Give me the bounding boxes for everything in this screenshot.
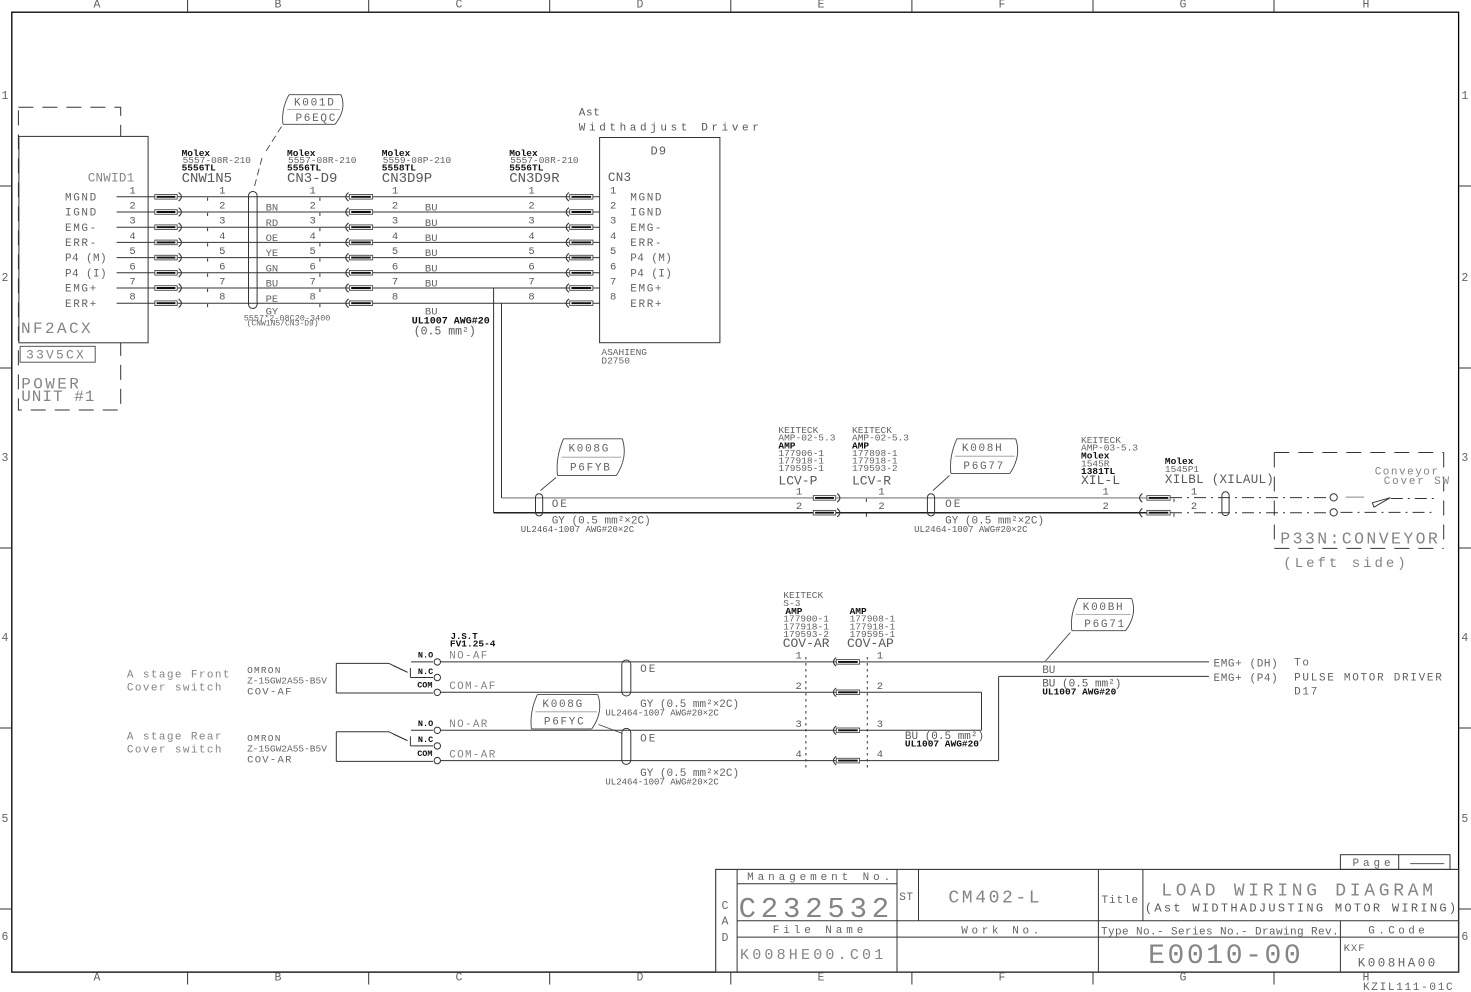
svg-text:7: 7 xyxy=(129,277,135,289)
leader from K00BH marker to EMG wire xyxy=(1046,633,1071,662)
svg-text:D: D xyxy=(637,0,644,11)
svg-text:IGND: IGND xyxy=(630,208,663,220)
svg-text:Cover switch: Cover switch xyxy=(127,683,223,695)
wire COM-AF xyxy=(441,691,982,693)
wire EMG+(P4) to pulse motor driver xyxy=(999,675,1209,677)
svg-text:1: 1 xyxy=(528,185,534,197)
wire marker K00BH / P6G71 xyxy=(1078,597,1132,599)
svg-text:C: C xyxy=(722,900,729,913)
svg-text:F: F xyxy=(999,972,1006,985)
svg-text:1: 1 xyxy=(878,486,884,498)
svg-text:2: 2 xyxy=(878,501,884,513)
wire marker K001D / P6EQC xyxy=(289,94,341,96)
svg-text:K008HE00.C01: K008HE00.C01 xyxy=(740,947,886,964)
svg-text:BU: BU xyxy=(425,248,438,260)
svg-text:LCV-R: LCV-R xyxy=(852,474,891,489)
svg-text:OMRON: OMRON xyxy=(247,733,282,744)
svg-text:Title: Title xyxy=(1102,895,1140,907)
svg-text:KZIL111-01C: KZIL111-01C xyxy=(1363,982,1454,992)
svg-text:6: 6 xyxy=(310,261,316,273)
svg-text:5: 5 xyxy=(392,246,398,258)
svg-text:4: 4 xyxy=(129,231,135,243)
svg-text:K00BH: K00BH xyxy=(1083,602,1125,614)
svg-text:File Name: File Name xyxy=(773,925,868,937)
svg-text:A: A xyxy=(94,972,101,985)
svg-text:CN3: CN3 xyxy=(608,171,631,185)
junction ticks after XILBL xyxy=(1173,499,1175,502)
svg-text:6: 6 xyxy=(610,261,616,273)
svg-text:3: 3 xyxy=(219,216,225,228)
svg-text:1: 1 xyxy=(796,486,802,498)
cable capsule marker right pair xyxy=(927,494,934,516)
svg-text:C: C xyxy=(456,972,463,985)
title block frame xyxy=(716,869,1459,972)
svg-text:6: 6 xyxy=(528,261,534,273)
svg-text:7: 7 xyxy=(392,277,398,289)
svg-text:8: 8 xyxy=(610,292,616,304)
svg-text:A stage Rear: A stage Rear xyxy=(127,732,223,744)
cover switch contact lower (circle) xyxy=(1330,509,1337,516)
svg-text:3: 3 xyxy=(310,216,316,228)
svg-text:5: 5 xyxy=(129,246,135,258)
svg-text:BN: BN xyxy=(266,203,279,215)
svg-text:COV-AP: COV-AP xyxy=(847,636,894,651)
svg-text:CN3-D9: CN3-D9 xyxy=(287,171,337,187)
svg-text:K001D: K001D xyxy=(294,98,336,110)
svg-text:1: 1 xyxy=(2,90,9,103)
svg-text:D: D xyxy=(722,932,729,945)
wire ERR+ drop from row8 to upper conveyor wire xyxy=(501,303,503,498)
svg-text:4: 4 xyxy=(310,231,316,243)
connector CNW1N5 crimp terminals xyxy=(155,195,177,200)
svg-text:CN3D9R: CN3D9R xyxy=(509,171,560,187)
svg-text:1: 1 xyxy=(1461,90,1468,103)
svg-text:6: 6 xyxy=(1461,931,1468,944)
svg-text:P6FYB: P6FYB xyxy=(570,463,612,475)
driver unit D9 box (Ast Widthadjust Driver) xyxy=(600,138,720,343)
svg-text:OE: OE xyxy=(640,734,657,746)
cable capsule marker left pair xyxy=(536,494,543,516)
dash-dot wires inside conveyor box xyxy=(1391,498,1434,500)
svg-text:COM-AR: COM-AR xyxy=(449,750,496,762)
svg-text:3: 3 xyxy=(795,719,801,731)
svg-text:EMG-: EMG- xyxy=(65,223,98,235)
conveyor pair wire upper (OE) xyxy=(502,497,1167,499)
svg-text:ERR+: ERR+ xyxy=(630,299,663,311)
svg-text:1: 1 xyxy=(1191,486,1197,498)
svg-text:LOAD WIRING DIAGRAM: LOAD WIRING DIAGRAM xyxy=(1161,882,1437,902)
svg-text:8: 8 xyxy=(528,292,534,304)
svg-text:2: 2 xyxy=(796,501,802,513)
svg-text:Widthadjust Driver: Widthadjust Driver xyxy=(579,122,763,134)
svg-text:1: 1 xyxy=(310,185,316,197)
svg-text:OE: OE xyxy=(266,233,279,245)
svg-text:3: 3 xyxy=(877,719,883,731)
svg-text:P4 (I): P4 (I) xyxy=(65,268,107,280)
svg-text:2: 2 xyxy=(877,681,883,693)
svg-text:GN: GN xyxy=(266,263,279,275)
svg-text:3: 3 xyxy=(2,452,9,465)
svg-text:Management No.: Management No. xyxy=(747,872,894,884)
svg-text:CNW1N5: CNW1N5 xyxy=(182,171,232,187)
svg-text:E0010-00: E0010-00 xyxy=(1148,941,1303,972)
svg-text:6: 6 xyxy=(129,261,135,273)
svg-text:UL1007 AWG#20: UL1007 AWG#20 xyxy=(1042,687,1116,698)
connector COV-AR/COV-AP crimp terminals xyxy=(833,658,836,667)
svg-text:K008G: K008G xyxy=(542,699,584,711)
svg-text:B: B xyxy=(275,972,282,985)
dash-dot wire upper to cover switch xyxy=(1170,497,1330,499)
svg-text:P4 (M): P4 (M) xyxy=(630,253,672,265)
leader from K008G to capsule xyxy=(541,478,557,491)
svg-text:YE: YE xyxy=(266,248,279,260)
svg-text:MGND: MGND xyxy=(65,192,98,204)
svg-text:3: 3 xyxy=(1461,452,1468,465)
svg-text:4: 4 xyxy=(877,749,883,761)
wire COM-AR riser to EMG+(P4) xyxy=(998,676,1000,760)
svg-text:8: 8 xyxy=(310,292,316,304)
leader line from K001D marker to cable xyxy=(266,127,282,153)
svg-text:ST: ST xyxy=(899,892,913,904)
svg-text:NO-AR: NO-AR xyxy=(449,719,489,731)
svg-text:2: 2 xyxy=(2,272,9,285)
title block page cell xyxy=(1340,855,1450,870)
connector CN3D9P crimp terminals xyxy=(346,193,349,202)
svg-text:H: H xyxy=(1363,0,1370,11)
svg-text:K008G: K008G xyxy=(569,444,611,456)
svg-text:(0.5 mm²): (0.5 mm²) xyxy=(414,326,476,339)
wire EMG+ drop from row7 to lower conveyor wire xyxy=(493,288,495,513)
svg-text:2: 2 xyxy=(310,201,316,213)
svg-text:6: 6 xyxy=(219,261,225,273)
svg-text:ERR+: ERR+ xyxy=(65,299,98,311)
svg-text:BU: BU xyxy=(266,279,279,291)
svg-text:1: 1 xyxy=(219,185,225,197)
svg-text:A stage Front: A stage Front xyxy=(127,670,231,682)
svg-text:COV-AR: COV-AR xyxy=(247,755,293,767)
svg-text:D9: D9 xyxy=(651,145,668,159)
svg-text:4: 4 xyxy=(610,231,616,243)
svg-text:COV-AF: COV-AF xyxy=(247,687,293,699)
svg-text:OE: OE xyxy=(552,499,569,511)
svg-text:1: 1 xyxy=(610,185,616,197)
svg-text:N.O: N.O xyxy=(418,650,433,660)
svg-text:UL2464-1007 AWG#20×2C: UL2464-1007 AWG#20×2C xyxy=(605,778,719,788)
svg-text:A: A xyxy=(722,916,729,929)
svg-text:5: 5 xyxy=(2,813,9,826)
svg-text:E: E xyxy=(818,972,825,985)
svg-text:COM-AF: COM-AF xyxy=(449,681,496,693)
svg-text:To: To xyxy=(1294,658,1311,670)
svg-text:XIL-L: XIL-L xyxy=(1081,473,1120,488)
svg-text:UL2464-1007 AWG#20×2C: UL2464-1007 AWG#20×2C xyxy=(521,525,635,535)
svg-text:4: 4 xyxy=(1461,632,1468,645)
svg-text:2: 2 xyxy=(610,201,616,213)
leader from K008G marker to rear capsule xyxy=(599,725,623,734)
svg-text:5: 5 xyxy=(219,246,225,258)
svg-text:D: D xyxy=(637,972,644,985)
svg-text:2: 2 xyxy=(795,681,801,693)
wire marker K008G / P6FYC xyxy=(537,694,597,696)
svg-text:PE: PE xyxy=(266,294,279,306)
cover switch COV-AF (A stage Front) xyxy=(335,663,337,693)
svg-text:Z-15GW2A55-B5V: Z-15GW2A55-B5V xyxy=(247,743,327,754)
dash-dot wire lower to cover switch xyxy=(1170,512,1330,514)
svg-text:3: 3 xyxy=(528,216,534,228)
svg-text:P6FYC: P6FYC xyxy=(544,717,586,729)
connector XIL-L crimp terminals xyxy=(1140,494,1143,503)
svg-text:E: E xyxy=(818,0,825,11)
svg-text:UL2464-1007 AWG#20×2C: UL2464-1007 AWG#20×2C xyxy=(605,708,719,718)
svg-text:Type No.- Series No.- Drawing: Type No.- Series No.- Drawing Rev. xyxy=(1101,927,1339,939)
svg-text:F: F xyxy=(999,0,1006,11)
svg-text:7: 7 xyxy=(219,277,225,289)
svg-text:BU: BU xyxy=(1042,665,1055,677)
svg-text:G: G xyxy=(1180,0,1187,11)
svg-text:Z-15GW2A55-B5V: Z-15GW2A55-B5V xyxy=(247,675,327,686)
svg-text:4: 4 xyxy=(528,231,534,243)
wire link COM-AF to NO-AR xyxy=(981,692,983,730)
power unit #1 dashed enclosure xyxy=(18,107,120,410)
svg-text:D17: D17 xyxy=(1294,686,1319,698)
svg-text:Cover switch: Cover switch xyxy=(127,744,223,756)
svg-text:2: 2 xyxy=(1102,501,1108,513)
svg-text:2: 2 xyxy=(219,201,225,213)
svg-text:UL2464-1007 AWG#20×2C: UL2464-1007 AWG#20×2C xyxy=(914,525,1028,535)
svg-text:5: 5 xyxy=(528,246,534,258)
svg-text:EMG+ (DH): EMG+ (DH) xyxy=(1214,659,1279,671)
junction ticks after CNW1N5 terminals xyxy=(207,198,209,201)
svg-text:C232532: C232532 xyxy=(739,893,894,926)
svg-text:P6EQC: P6EQC xyxy=(296,113,338,125)
svg-text:5: 5 xyxy=(1461,813,1468,826)
cable capsule marker XILBL xyxy=(1222,492,1229,516)
svg-text:Ast: Ast xyxy=(579,108,601,120)
label 33V5CX box xyxy=(20,346,95,362)
wire marker K008H / P6G77 xyxy=(957,438,1016,440)
svg-text:RD: RD xyxy=(266,218,279,230)
connector LCV-P/LCV-R crimp terminals xyxy=(813,496,835,501)
svg-text:Work No.: Work No. xyxy=(961,926,1043,938)
svg-text:(CNW1N5/CN3-D9): (CNW1N5/CN3-D9) xyxy=(247,320,319,329)
svg-text:1: 1 xyxy=(1102,486,1108,498)
svg-text:OE: OE xyxy=(945,499,962,511)
svg-text:P4 (M): P4 (M) xyxy=(65,253,107,265)
svg-text:4: 4 xyxy=(2,632,9,645)
svg-text:A: A xyxy=(94,0,101,11)
svg-text:2: 2 xyxy=(392,201,398,213)
svg-text:EMG+: EMG+ xyxy=(65,284,98,296)
svg-text:7: 7 xyxy=(610,277,616,289)
svg-text:CM402-L: CM402-L xyxy=(948,888,1042,908)
svg-text:BU: BU xyxy=(425,263,438,275)
svg-text:P4 (I): P4 (I) xyxy=(630,268,672,280)
wire NO-AF xyxy=(441,661,1210,663)
svg-text:B: B xyxy=(275,0,282,11)
svg-text:CN3D9P: CN3D9P xyxy=(382,171,432,187)
cable capsule front pair xyxy=(622,660,631,696)
svg-text:6: 6 xyxy=(392,261,398,273)
svg-text:8: 8 xyxy=(219,292,225,304)
svg-text:1: 1 xyxy=(877,650,883,662)
junction ticks before LCV-R xyxy=(865,499,867,502)
svg-text:6: 6 xyxy=(2,931,9,944)
connector COV-AR/COV-AP housing dashed lines xyxy=(805,657,807,769)
svg-text:K008HA00: K008HA00 xyxy=(1358,957,1438,971)
svg-text:8: 8 xyxy=(392,292,398,304)
svg-text:MGND: MGND xyxy=(630,192,663,204)
svg-text:Page: Page xyxy=(1353,858,1395,870)
svg-text:G.Code: G.Code xyxy=(1368,926,1428,938)
wires rows 1-8 CNWID1 to CN3 (MGND,IGND,EMG-,ERR-,P4(M),P4(I),EMG+,ERR+) xyxy=(117,196,600,198)
svg-text:4: 4 xyxy=(795,749,801,761)
svg-text:179593-2: 179593-2 xyxy=(852,463,898,474)
svg-text:ERR-: ERR- xyxy=(65,238,98,250)
svg-text:D2750: D2750 xyxy=(601,356,630,367)
svg-text:7: 7 xyxy=(310,277,316,289)
svg-text:2: 2 xyxy=(1461,272,1468,285)
svg-text:8: 8 xyxy=(129,292,135,304)
connector CN3 crimp terminals xyxy=(566,193,569,202)
svg-text:1: 1 xyxy=(392,185,398,197)
svg-text:K008H: K008H xyxy=(962,443,1004,455)
svg-text:BU: BU xyxy=(425,279,438,291)
svg-text:CNWID1: CNWID1 xyxy=(88,171,135,185)
svg-text:OMRON: OMRON xyxy=(247,665,282,676)
svg-text:EMG-: EMG- xyxy=(630,223,663,235)
svg-text:3: 3 xyxy=(610,216,616,228)
svg-text:KXF: KXF xyxy=(1344,943,1366,955)
wire NO-AR xyxy=(441,729,982,731)
svg-text:XILBL (XILAUL): XILBL (XILAUL) xyxy=(1165,473,1274,487)
svg-text:COV-AR: COV-AR xyxy=(783,636,830,651)
svg-text:PULSE MOTOR DRIVER: PULSE MOTOR DRIVER xyxy=(1294,673,1443,685)
svg-text:2: 2 xyxy=(1191,501,1197,513)
svg-text:2: 2 xyxy=(528,201,534,213)
svg-text:FV1.25-4: FV1.25-4 xyxy=(450,639,496,650)
svg-text:Cover SW: Cover SW xyxy=(1384,476,1451,488)
svg-text:7: 7 xyxy=(528,277,534,289)
svg-text:P33N:CONVEYOR: P33N:CONVEYOR xyxy=(1280,529,1440,548)
svg-text:5: 5 xyxy=(310,246,316,258)
svg-text:BU: BU xyxy=(425,233,438,245)
svg-text:IGND: IGND xyxy=(65,208,98,220)
svg-text:UNIT #1: UNIT #1 xyxy=(21,388,95,406)
svg-text:N.O: N.O xyxy=(418,719,433,729)
svg-text:NF2ACX: NF2ACX xyxy=(21,320,93,338)
dashed enclosure P33N CONVEYOR xyxy=(1274,452,1443,454)
svg-text:N.C: N.C xyxy=(418,667,433,677)
cover switch contact upper (circle + blade) xyxy=(1330,494,1337,501)
svg-text:1: 1 xyxy=(795,650,801,662)
svg-text:EMG+: EMG+ xyxy=(630,284,663,296)
svg-text:G: G xyxy=(1180,972,1187,985)
svg-text:33V5CX: 33V5CX xyxy=(26,348,86,363)
svg-text:BU: BU xyxy=(425,218,438,230)
cable capsule rear pair xyxy=(622,728,631,764)
conveyor pair wire lower (GY) xyxy=(494,512,1167,514)
svg-text:(Ast WIDTHADJUSTING MOTOR WIRI: (Ast WIDTHADJUSTING MOTOR WIRING) xyxy=(1145,902,1459,916)
svg-text:OE: OE xyxy=(640,664,657,676)
leader from K008H to capsule xyxy=(933,476,950,491)
svg-text:179595-1: 179595-1 xyxy=(778,463,824,474)
cable bundle capsule CNW1N5/CN3-D9 xyxy=(249,192,258,309)
cover switch COV-AR (A stage Rear) xyxy=(335,732,337,762)
svg-text:4: 4 xyxy=(219,231,225,243)
svg-text:3: 3 xyxy=(129,216,135,228)
svg-text:5: 5 xyxy=(610,246,616,258)
svg-text:3: 3 xyxy=(392,216,398,228)
svg-text:UL1007 AWG#20: UL1007 AWG#20 xyxy=(905,739,979,750)
svg-text:4: 4 xyxy=(392,231,398,243)
svg-text:(Left side): (Left side) xyxy=(1283,556,1408,572)
svg-text:2: 2 xyxy=(129,201,135,213)
svg-text:P6G71: P6G71 xyxy=(1084,619,1126,631)
wire marker K008G / P6FYB xyxy=(564,438,623,440)
svg-text:P6G77: P6G77 xyxy=(963,461,1005,473)
wire COM-AR xyxy=(441,760,999,762)
power unit NF2ACX box xyxy=(19,136,148,342)
svg-text:NO-AF: NO-AF xyxy=(449,651,489,663)
svg-text:N.C: N.C xyxy=(418,735,433,745)
svg-text:BU: BU xyxy=(425,203,438,215)
svg-text:ERR-: ERR- xyxy=(630,238,663,250)
svg-text:COM: COM xyxy=(417,749,432,759)
junction ticks after CN3-D9 pins xyxy=(319,198,321,201)
svg-text:1: 1 xyxy=(129,185,135,197)
svg-text:C: C xyxy=(456,0,463,11)
svg-text:COM: COM xyxy=(417,681,432,691)
svg-text:EMG+ (P4): EMG+ (P4) xyxy=(1214,673,1279,685)
